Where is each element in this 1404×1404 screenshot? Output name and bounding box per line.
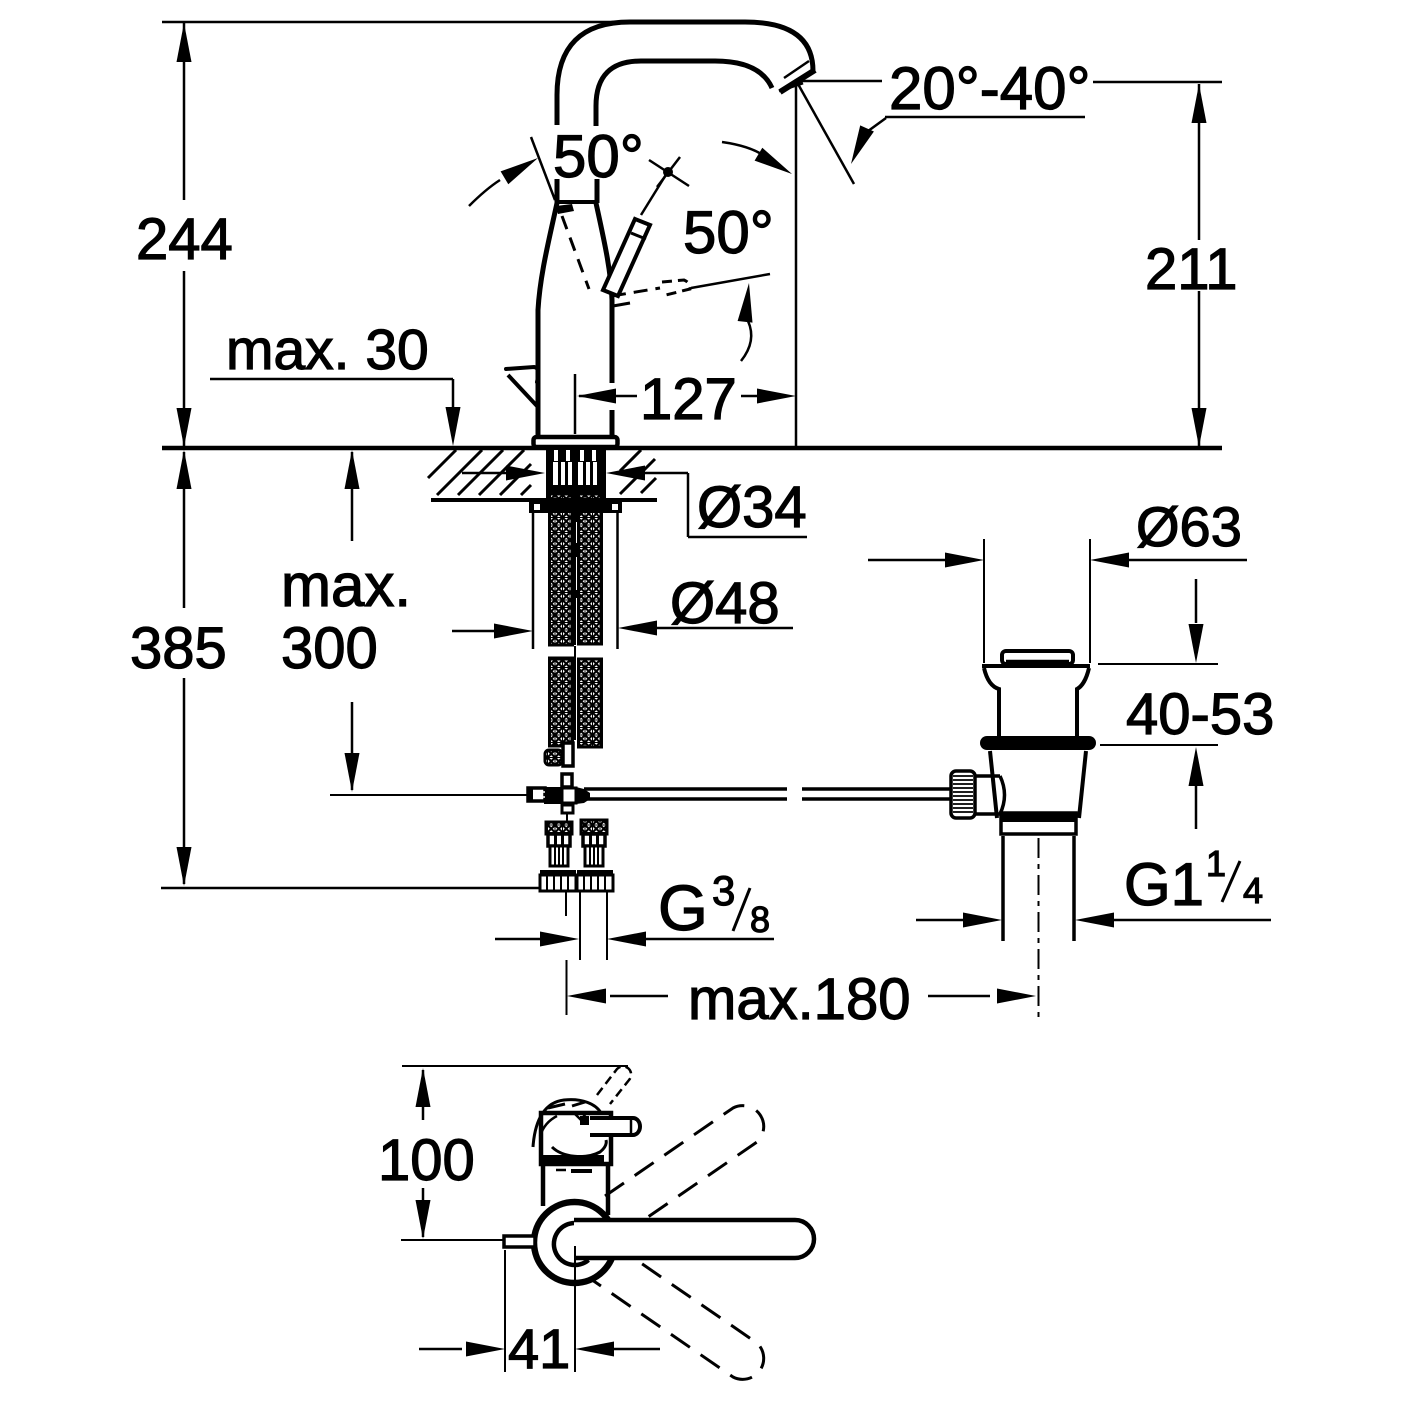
- svg-text:40-53: 40-53: [1126, 682, 1274, 747]
- braided hose right lower: [579, 659, 602, 747]
- top extension line: [162, 21, 640, 24]
- base flange: [534, 437, 618, 447]
- svg-text:max.: max.: [281, 552, 411, 619]
- dia48 dimension: [452, 630, 495, 633]
- top view black band: [543, 1155, 604, 1164]
- rod joint block: [544, 787, 562, 804]
- mounting nut: [529, 498, 622, 513]
- pull rod section: [563, 743, 573, 766]
- svg-text:100: 100: [378, 1128, 475, 1193]
- water stream direction line: [798, 84, 854, 184]
- hose end piece left: [545, 750, 562, 765]
- dashes below band: [556, 1169, 566, 1172]
- max.180 extension line left: [566, 960, 568, 1015]
- neck top line: [557, 200, 596, 204]
- svg-text:3: 3: [712, 867, 735, 914]
- dimension 244 arrow up: [177, 23, 192, 62]
- braided hose right upper: [579, 493, 602, 644]
- max.30 underline: [210, 378, 453, 381]
- max.300 arrow down: [345, 753, 360, 792]
- G3/8 extension line left: [579, 892, 581, 960]
- svg-text:G: G: [658, 872, 708, 944]
- extension line from spout tip to counter: [795, 86, 798, 448]
- G3/8 dimension right: [607, 932, 646, 947]
- spout swivel arc: [722, 142, 770, 161]
- threaded stud right: [616, 513, 619, 649]
- tangent line 50 degrees: [531, 137, 555, 200]
- svg-text:8: 8: [750, 899, 770, 940]
- dimension 244 vertical line: [183, 22, 186, 200]
- dashed lever upper position: [600, 1106, 764, 1250]
- counter hatching right: [620, 450, 641, 471]
- sketch dashes: [548, 1104, 565, 1108]
- extension line at spout outlet level: [798, 80, 882, 83]
- handle axis line: [641, 173, 667, 215]
- G3/8 extension line right: [606, 892, 608, 960]
- max.300 arrow up: [345, 450, 360, 489]
- counter hatching left: [428, 450, 456, 478]
- dimension 385 vertical line: [183, 452, 186, 608]
- dashed lever lower position: [582, 1259, 764, 1379]
- hose cross-section left: [553, 462, 572, 485]
- svg-text:244: 244: [136, 207, 233, 272]
- waste side knob: [975, 774, 1000, 778]
- dimension 40-53: [1098, 663, 1218, 665]
- pivot dot: [663, 167, 673, 177]
- spout inner profile: [596, 61, 772, 126]
- braided hose left upper: [550, 493, 573, 645]
- max.30 arrow: [446, 407, 461, 446]
- top view centerline: [574, 1246, 576, 1372]
- leader arrow 20-40: [851, 125, 874, 164]
- leader arc 50 degrees: [469, 180, 500, 206]
- spout outlet face: [780, 70, 815, 92]
- svg-text:Ø63: Ø63: [1136, 495, 1242, 558]
- faucet body right edge: [596, 203, 612, 437]
- neck lines: [541, 1164, 546, 1206]
- max.30 leader vertical: [452, 379, 455, 410]
- svg-text:211: 211: [1145, 237, 1237, 302]
- threaded shank: [546, 449, 606, 500]
- waste o-ring: [980, 736, 1096, 750]
- tailpipe centerline: [1038, 838, 1040, 1017]
- top view body rect: [541, 1113, 611, 1164]
- hose cross-section right: [578, 462, 597, 485]
- G3/8 dimension left: [495, 938, 541, 941]
- lever bar top view: [574, 1220, 814, 1258]
- dia63 extension line right: [1089, 539, 1091, 663]
- dimension 385 arrow up: [177, 450, 192, 489]
- dimension 127 line left: [579, 395, 637, 398]
- pivot cross line 1: [649, 160, 689, 186]
- connection nut right: [577, 870, 613, 875]
- svg-text:4: 4: [1243, 870, 1263, 911]
- dimension 100: [422, 1070, 425, 1120]
- svg-text:1: 1: [1206, 843, 1226, 884]
- hose fitting right: [581, 820, 607, 834]
- svg-text:50°: 50°: [683, 199, 774, 266]
- bottom extension line 100: [401, 1239, 504, 1241]
- waste body: [990, 751, 997, 818]
- threaded stud left: [532, 513, 535, 649]
- max.300 dimension line: [351, 452, 354, 541]
- bottom extension line for 385: [161, 887, 540, 890]
- dimension 211 arrow down: [1192, 408, 1207, 447]
- counter bottom line: [431, 498, 657, 502]
- aerator stub top view: [590, 1118, 640, 1135]
- dimension 127 line right: [741, 395, 757, 398]
- dimension 211 arrow up: [1192, 84, 1207, 123]
- handle lever crossbar: [631, 233, 646, 239]
- svg-text:127: 127: [640, 367, 737, 432]
- aerator stub left: [504, 1236, 535, 1247]
- svg-text:G1: G1: [1124, 851, 1204, 918]
- inner cartridge arc: [554, 1223, 589, 1265]
- svg-text:max. 30: max. 30: [226, 318, 429, 382]
- dashed handle horizontal position: [612, 288, 660, 296]
- hose tail line: [565, 892, 567, 916]
- dimension 385 arrow down: [177, 847, 192, 886]
- lever handle side hook: [506, 367, 539, 382]
- leader arrow 50 degrees: [501, 158, 538, 184]
- dia34 dimension: [462, 472, 507, 475]
- dia63 dimension: [868, 559, 946, 562]
- svg-text:50°: 50°: [553, 123, 644, 190]
- pull rod in shank: [573, 493, 578, 522]
- dimension 41: [504, 1250, 506, 1372]
- connection nut left: [540, 870, 576, 875]
- dashed handle tip cap: [662, 280, 690, 295]
- arc 50 degrees handle: [741, 321, 751, 361]
- arc arrow 50 degrees handle: [738, 283, 753, 323]
- raised handle dashed: [597, 1066, 631, 1104]
- sketch handle outline: [533, 1100, 601, 1147]
- handle axis thin line: [691, 274, 770, 288]
- handle flag: [556, 204, 574, 214]
- svg-text:385: 385: [130, 616, 227, 681]
- spout outlet underside: [779, 83, 803, 91]
- waste tailpipe: [1001, 836, 1005, 941]
- horizontal pull rod: [584, 787, 787, 791]
- svg-text:300: 300: [281, 616, 378, 681]
- top view spout circle: [534, 1202, 615, 1283]
- svg-text:max.180: max.180: [688, 967, 910, 1032]
- sketch pin mark: [575, 1114, 581, 1120]
- G1 1/4 dimension: [916, 919, 964, 922]
- dimension 127 arrow right: [757, 389, 796, 404]
- top view extension line: [402, 1065, 628, 1067]
- waste push button: [1002, 651, 1073, 664]
- underline of 20-40 label: [885, 116, 1085, 119]
- handle lever outline: [603, 219, 650, 296]
- leader from 20-40 label: [864, 118, 886, 134]
- spout outer profile: [557, 22, 813, 125]
- dimension 127 arrow left: [577, 389, 616, 404]
- dimension 211 vertical line: [1198, 84, 1201, 240]
- faucet centerline: [574, 374, 577, 434]
- svg-text:Ø48: Ø48: [670, 571, 780, 636]
- dashed handle position line: [562, 216, 589, 289]
- pivot cross line 2: [657, 157, 680, 187]
- counter top line: [162, 446, 1222, 451]
- waste flange: [982, 664, 1090, 668]
- braided hose left lower: [550, 658, 573, 746]
- dia63 extension line left: [983, 539, 985, 663]
- waste collar: [1001, 813, 1076, 834]
- faucet body left edge: [538, 203, 557, 437]
- spout swivel arrow: [755, 148, 792, 174]
- rod left stub: [528, 788, 545, 801]
- mounting nut redraw (occludes hoses): [529, 498, 622, 513]
- hose fitting left: [546, 822, 572, 834]
- svg-text:Ø34: Ø34: [697, 475, 807, 540]
- max.180 dimension line: [610, 995, 668, 998]
- svg-text:41: 41: [508, 1317, 570, 1380]
- dimension 244 arrow down: [177, 408, 192, 447]
- svg-text:20°-40°: 20°-40°: [889, 55, 1090, 122]
- max.300 bottom reference line: [330, 794, 528, 796]
